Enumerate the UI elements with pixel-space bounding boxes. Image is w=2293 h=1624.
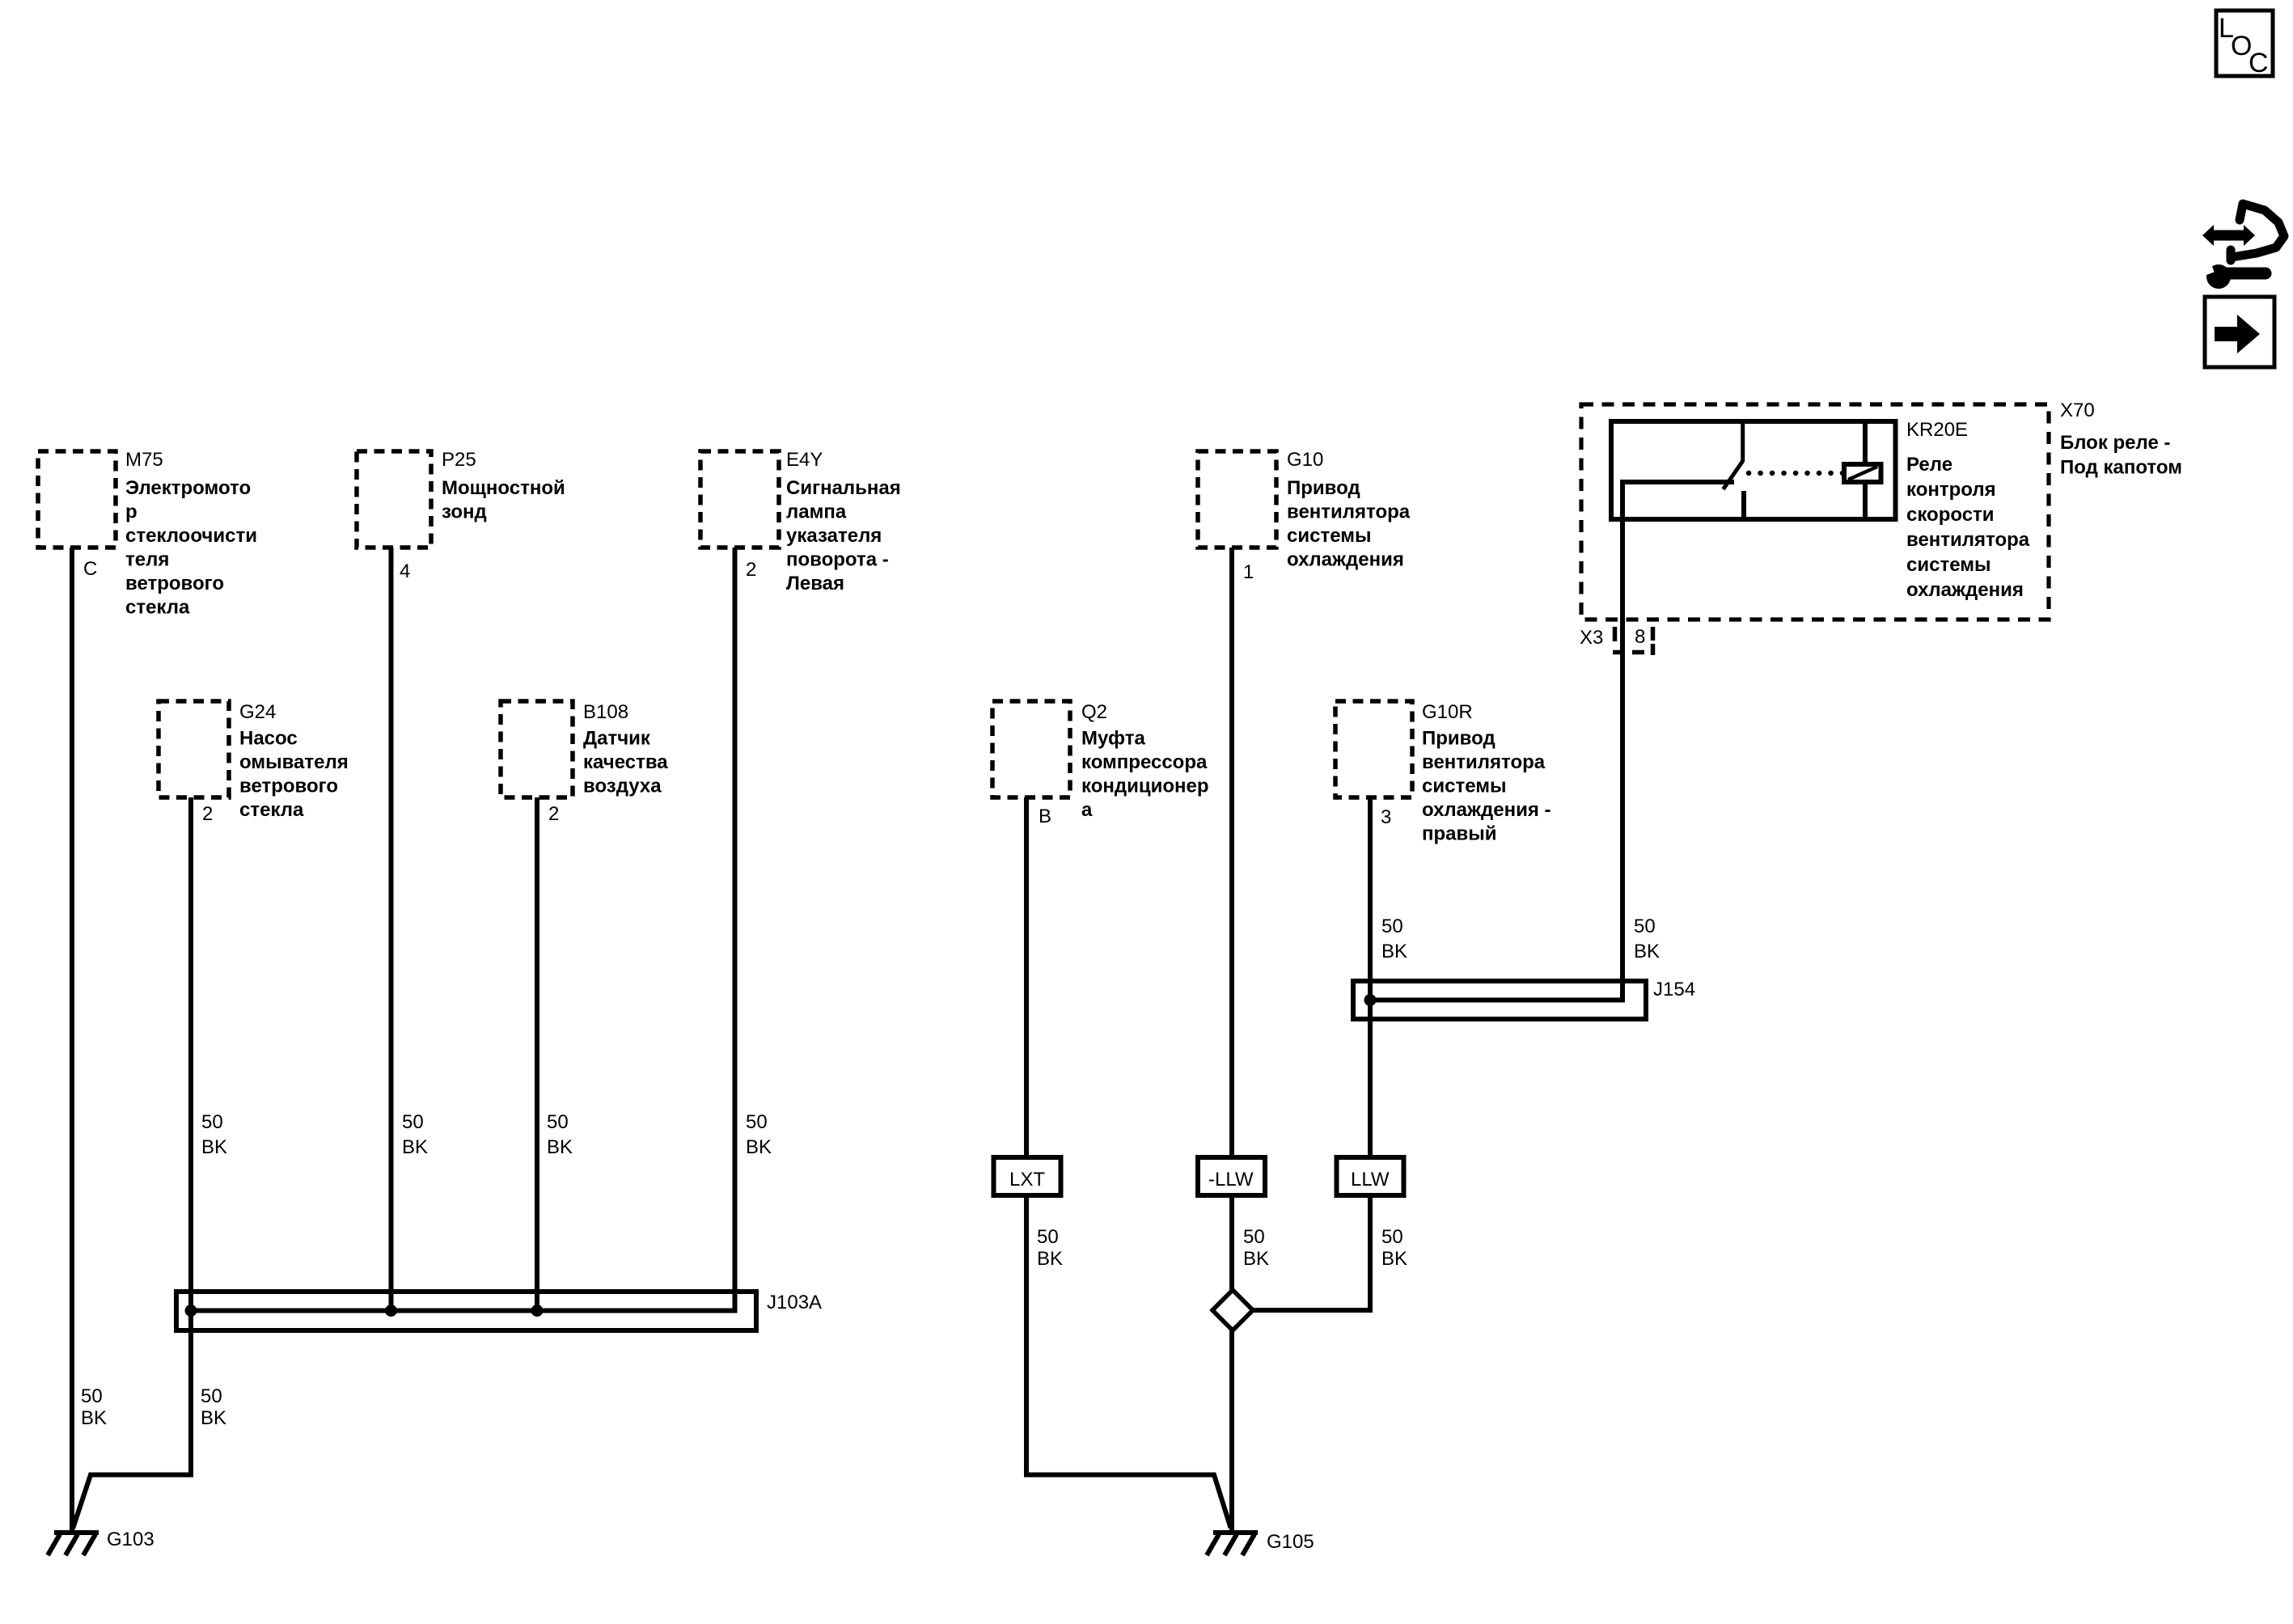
relay switch lower contact [1741, 491, 1746, 519]
svg-text:50: 50 [547, 1111, 569, 1133]
KR20E description [1906, 454, 2030, 601]
svg-text:G24: G24 [239, 701, 276, 723]
wire label 50 BK (E4Y wire) [746, 1111, 772, 1158]
wire label 50 BK (B108 wire) [547, 1111, 573, 1158]
LOC symbol box top-right [2216, 11, 2273, 78]
svg-text:зонд: зонд [442, 501, 487, 523]
svg-text:стекла: стекла [239, 799, 304, 821]
E4Y description [786, 477, 901, 594]
harness label box LLW on G10R wire [1337, 1157, 1404, 1195]
svg-text:Муфта: Муфта [1081, 728, 1145, 750]
svg-text:BK: BK [1037, 1248, 1063, 1270]
Q2 description [1081, 728, 1209, 822]
svg-text:Привод: Привод [1287, 477, 1360, 499]
svg-text:правый: правый [1422, 823, 1497, 845]
svg-text:50: 50 [402, 1111, 424, 1133]
connector X3 pin 8 (dashed brackets) [1613, 627, 1653, 655]
svg-text:2: 2 [746, 559, 756, 581]
svg-text:воздуха: воздуха [583, 776, 662, 797]
svg-text:Мощностной: Мощностной [442, 477, 565, 499]
svg-text:Датчик: Датчик [583, 728, 651, 750]
wire M75 pin C to ground G103 [70, 548, 74, 1533]
svg-text:BK: BK [1634, 941, 1660, 962]
svg-text:2: 2 [548, 803, 559, 825]
svg-text:системы: системы [1906, 554, 1991, 576]
svg-text:G105: G105 [1267, 1531, 1314, 1553]
component E4Y (dashed box) [700, 451, 779, 548]
wire label 50 BK (G10R wire) [1381, 916, 1407, 962]
svg-text:50: 50 [81, 1385, 103, 1407]
svg-text:компрессора: компрессора [1081, 751, 1208, 773]
relay dotted actuating line [1749, 471, 1842, 476]
J103A junction dot P25 [385, 1305, 397, 1317]
relay coil diagonal [1848, 467, 1877, 480]
junction block J154 [1353, 981, 1646, 1019]
svg-text:Блок реле -: Блок реле - [2060, 432, 2170, 454]
wire E4Y pin 2 to J103A bus [191, 548, 735, 1311]
svg-text:ветрового: ветрового [239, 776, 338, 797]
svg-text:BK: BK [1381, 1248, 1407, 1270]
svg-text:вентилятора: вентилятора [1287, 501, 1411, 523]
svg-text:C: C [2249, 48, 2269, 78]
svg-text:B108: B108 [583, 701, 628, 723]
G24 description [239, 728, 349, 822]
wire B108 pin 2 to J103A [535, 797, 539, 1311]
svg-text:8: 8 [1635, 626, 1645, 648]
svg-text:3: 3 [1381, 806, 1391, 828]
svg-text:BK: BK [201, 1407, 226, 1429]
svg-text:вентилятора: вентилятора [1422, 751, 1546, 773]
svg-text:р: р [125, 501, 137, 523]
wire label 50 BK (M75 wire) [81, 1385, 107, 1429]
svg-text:поворота -: поворота - [786, 549, 889, 571]
wire G10 pin 1 to -LLW and ground G105 [1229, 548, 1234, 1157]
wire G24 pin 2 through J103A to ground G103 [73, 797, 191, 1529]
wire label 50 BK (below LLW) [1381, 1226, 1407, 1270]
relay switch pivot [1741, 424, 1745, 462]
svg-text:Сигнальная: Сигнальная [786, 477, 901, 499]
svg-text:50: 50 [1634, 916, 1656, 937]
svg-text:50: 50 [1037, 1226, 1059, 1248]
svg-text:охлаждения: охлаждения [1287, 549, 1404, 571]
service icon (wrench with arrows) [2202, 204, 2284, 289]
relay switch blade [1724, 461, 1743, 489]
svg-text:50: 50 [1381, 1226, 1403, 1248]
svg-text:LXT: LXT [1009, 1169, 1045, 1191]
J154 junction dot [1364, 994, 1377, 1006]
G10R description [1422, 728, 1551, 845]
junction block J103A [176, 1292, 756, 1330]
wire Q2 pin B through LXT to ground G105 [1024, 797, 1029, 1157]
svg-text:а: а [1081, 799, 1093, 821]
svg-text:M75: M75 [125, 449, 163, 471]
svg-text:Электромото: Электромото [125, 477, 251, 499]
wire label 50 BK (relay wire) [1634, 916, 1660, 962]
wire label 50 BK (P25 wire) [402, 1111, 428, 1158]
harness label box -LLW on G10 wire [1198, 1157, 1265, 1195]
svg-text:X70: X70 [2060, 400, 2095, 421]
svg-text:BK: BK [402, 1136, 428, 1158]
harness label box LXT on Q2 wire [994, 1157, 1061, 1195]
svg-text:50: 50 [746, 1111, 768, 1133]
svg-text:теля: теля [125, 549, 169, 571]
svg-text:Q2: Q2 [1081, 701, 1107, 723]
ground G105 [1207, 1533, 1258, 1555]
svg-text:BK: BK [547, 1136, 573, 1158]
X70 description [2060, 432, 2182, 479]
wire relay to J154 bus [1370, 519, 1622, 1000]
svg-text:G10R: G10R [1422, 701, 1473, 723]
relay internal common wire [1622, 482, 1734, 519]
svg-text:4: 4 [400, 560, 410, 582]
svg-text:-LLW: -LLW [1208, 1169, 1254, 1191]
component P25 (dashed box) [357, 451, 431, 548]
B108 description [583, 728, 668, 797]
ground G103 [48, 1533, 99, 1555]
wire P25 pin 4 to J103A [389, 548, 394, 1311]
svg-text:1: 1 [1243, 561, 1254, 583]
component G10R (dashed box) [1335, 701, 1412, 797]
svg-text:лампа: лампа [786, 501, 847, 523]
svg-text:50: 50 [201, 1111, 223, 1133]
M75 description [125, 477, 257, 619]
svg-text:Реле: Реле [1906, 454, 1952, 476]
svg-text:E4Y: E4Y [786, 449, 823, 471]
X70 relay block (dashed box) [1581, 404, 2049, 620]
wire label 50 BK (below -LLW) [1243, 1226, 1269, 1270]
svg-text:KR20E: KR20E [1906, 419, 1968, 441]
component G24 (dashed box) [159, 701, 229, 797]
svg-text:вентилятора: вентилятора [1906, 529, 2030, 551]
svg-text:J154: J154 [1653, 979, 1695, 1000]
svg-text:BK: BK [1243, 1248, 1269, 1270]
relay coil leads [1863, 424, 1868, 464]
svg-text:омывателя: омывателя [239, 751, 349, 773]
svg-text:50: 50 [201, 1385, 222, 1407]
svg-text:X3: X3 [1580, 627, 1603, 649]
svg-text:G10: G10 [1287, 449, 1323, 471]
svg-text:системы: системы [1287, 525, 1371, 547]
svg-text:скорости: скорости [1906, 504, 1995, 526]
svg-text:B: B [1039, 806, 1051, 827]
svg-text:BK: BK [81, 1407, 107, 1429]
svg-text:50: 50 [1381, 916, 1403, 937]
wire G10R pin 3 through J154 to LLW and diamond splice [1368, 797, 1373, 1157]
svg-text:Привод: Привод [1422, 728, 1496, 750]
component Q2 (dashed box) [992, 701, 1070, 797]
svg-text:кондиционер: кондиционер [1081, 776, 1209, 797]
P25 description [442, 477, 565, 523]
svg-text:качества: качества [583, 751, 668, 773]
svg-text:Под капотом: Под капотом [2060, 457, 2182, 479]
svg-text:P25: P25 [442, 449, 476, 471]
component M75 (dashed box) [38, 451, 116, 548]
relay coil box [1844, 464, 1881, 482]
J103A junction dot B108 [531, 1305, 544, 1317]
svg-text:BK: BK [201, 1136, 227, 1158]
svg-text:системы: системы [1422, 776, 1506, 797]
svg-text:2: 2 [202, 803, 213, 825]
svg-text:стекла: стекла [125, 597, 190, 619]
wire label 50 BK (below LXT) [1037, 1226, 1063, 1270]
svg-text:Насос: Насос [239, 728, 298, 750]
component B108 (dashed box) [501, 701, 573, 797]
svg-text:контроля: контроля [1906, 479, 1996, 501]
svg-text:J103A: J103A [767, 1292, 822, 1313]
svg-text:G103: G103 [107, 1529, 154, 1550]
svg-text:стеклоочисти: стеклоочисти [125, 525, 257, 547]
arrow-in-box icon [2205, 297, 2274, 367]
svg-text:C: C [83, 558, 97, 580]
svg-text:охлаждения -: охлаждения - [1422, 799, 1551, 821]
svg-text:BK: BK [1381, 941, 1407, 962]
svg-text:Левая: Левая [786, 573, 844, 594]
G10 description [1287, 477, 1411, 571]
wire label 50 BK (G24 wire bottom) [201, 1385, 226, 1429]
component G10 (dashed box) [1198, 451, 1276, 548]
svg-text:указателя: указателя [786, 525, 882, 547]
svg-text:LLW: LLW [1351, 1169, 1390, 1191]
svg-text:50: 50 [1243, 1226, 1265, 1248]
relay KR20E (solid box) [1611, 421, 1896, 519]
wire label 50 BK (G24 wire) [201, 1111, 227, 1158]
svg-text:BK: BK [746, 1136, 772, 1158]
diamond splice [1212, 1290, 1253, 1330]
J103A junction dot G24 [185, 1305, 197, 1317]
svg-text:ветрового: ветрового [125, 573, 224, 594]
svg-text:охлаждения: охлаждения [1906, 579, 2024, 601]
